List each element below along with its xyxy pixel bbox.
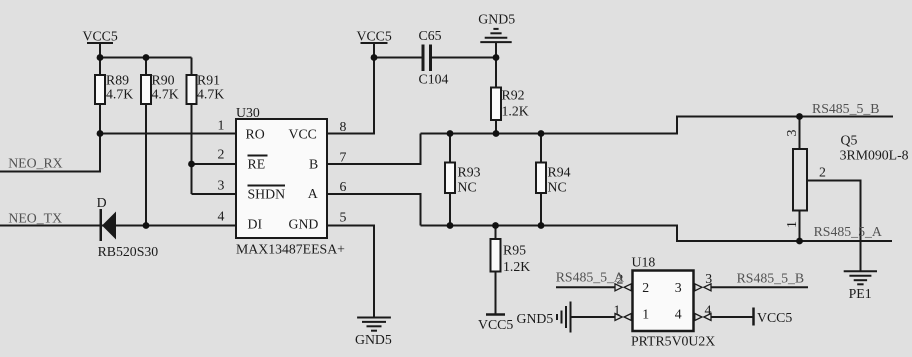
svg-text:C65: C65 [419, 28, 442, 43]
svg-text:RB520S30: RB520S30 [98, 244, 159, 259]
svg-text:3RM090L-8: 3RM090L-8 [840, 147, 909, 162]
svg-text:RS485_5_A: RS485_5_A [814, 224, 882, 239]
svg-text:SHDN: SHDN [248, 187, 286, 202]
svg-text:6: 6 [340, 179, 347, 194]
svg-text:4.7K: 4.7K [152, 87, 179, 102]
svg-text:3: 3 [705, 271, 712, 286]
svg-text:1.2K: 1.2K [502, 104, 529, 119]
svg-text:2: 2 [218, 147, 225, 162]
svg-text:1: 1 [614, 303, 621, 318]
svg-text:R92: R92 [502, 88, 525, 103]
svg-text:1: 1 [642, 307, 649, 322]
svg-text:DI: DI [248, 217, 263, 232]
svg-text:GND: GND [289, 217, 319, 232]
svg-text:4.7K: 4.7K [106, 87, 133, 102]
svg-text:U18: U18 [632, 255, 656, 270]
svg-text:RO: RO [246, 127, 265, 142]
svg-text:4: 4 [675, 307, 682, 322]
svg-text:GND5: GND5 [355, 332, 392, 347]
svg-text:NEO_TX: NEO_TX [8, 211, 62, 226]
svg-text:U30: U30 [236, 105, 260, 120]
svg-text:3: 3 [218, 178, 225, 193]
svg-text:3: 3 [784, 129, 799, 136]
svg-text:B: B [309, 157, 318, 172]
svg-text:VCC5: VCC5 [357, 29, 392, 44]
svg-text:RE: RE [248, 157, 266, 172]
svg-text:1.2K: 1.2K [503, 259, 530, 274]
svg-text:1: 1 [784, 221, 799, 228]
svg-text:Q5: Q5 [841, 133, 858, 148]
svg-text:RS485_5_A: RS485_5_A [556, 270, 624, 285]
svg-text:NC: NC [548, 180, 567, 195]
svg-text:C104: C104 [419, 72, 449, 87]
svg-text:MAX13487EESA+: MAX13487EESA+ [236, 242, 345, 257]
svg-text:NEO_RX: NEO_RX [8, 156, 62, 171]
svg-text:R94: R94 [548, 165, 571, 180]
svg-text:VCC5: VCC5 [757, 310, 792, 325]
svg-text:R95: R95 [503, 243, 526, 258]
svg-text:RS485_5_B: RS485_5_B [812, 101, 879, 116]
svg-text:PE1: PE1 [849, 286, 872, 301]
svg-text:NC: NC [458, 180, 477, 195]
svg-text:GND5: GND5 [517, 311, 554, 326]
svg-text:4: 4 [218, 209, 225, 224]
svg-text:5: 5 [340, 210, 347, 225]
svg-text:2: 2 [819, 165, 826, 180]
svg-text:3: 3 [675, 280, 682, 295]
svg-text:A: A [308, 186, 318, 201]
svg-text:1: 1 [218, 118, 225, 133]
svg-text:RS485_5_B: RS485_5_B [737, 270, 804, 285]
svg-text:VCC: VCC [289, 127, 317, 142]
svg-text:8: 8 [340, 119, 347, 134]
svg-text:7: 7 [340, 150, 347, 165]
svg-text:R91: R91 [197, 73, 220, 88]
svg-text:4: 4 [705, 303, 712, 318]
svg-text:D: D [97, 195, 107, 210]
svg-text:2: 2 [642, 280, 649, 295]
svg-text:GND5: GND5 [478, 12, 515, 27]
svg-text:4.7K: 4.7K [197, 87, 224, 102]
svg-text:VCC5: VCC5 [83, 29, 118, 44]
svg-text:R93: R93 [458, 165, 481, 180]
svg-text:R90: R90 [152, 73, 175, 88]
svg-text:PRTR5V0U2X: PRTR5V0U2X [631, 334, 715, 349]
svg-text:R89: R89 [106, 73, 129, 88]
svg-text:VCC5: VCC5 [478, 317, 513, 332]
